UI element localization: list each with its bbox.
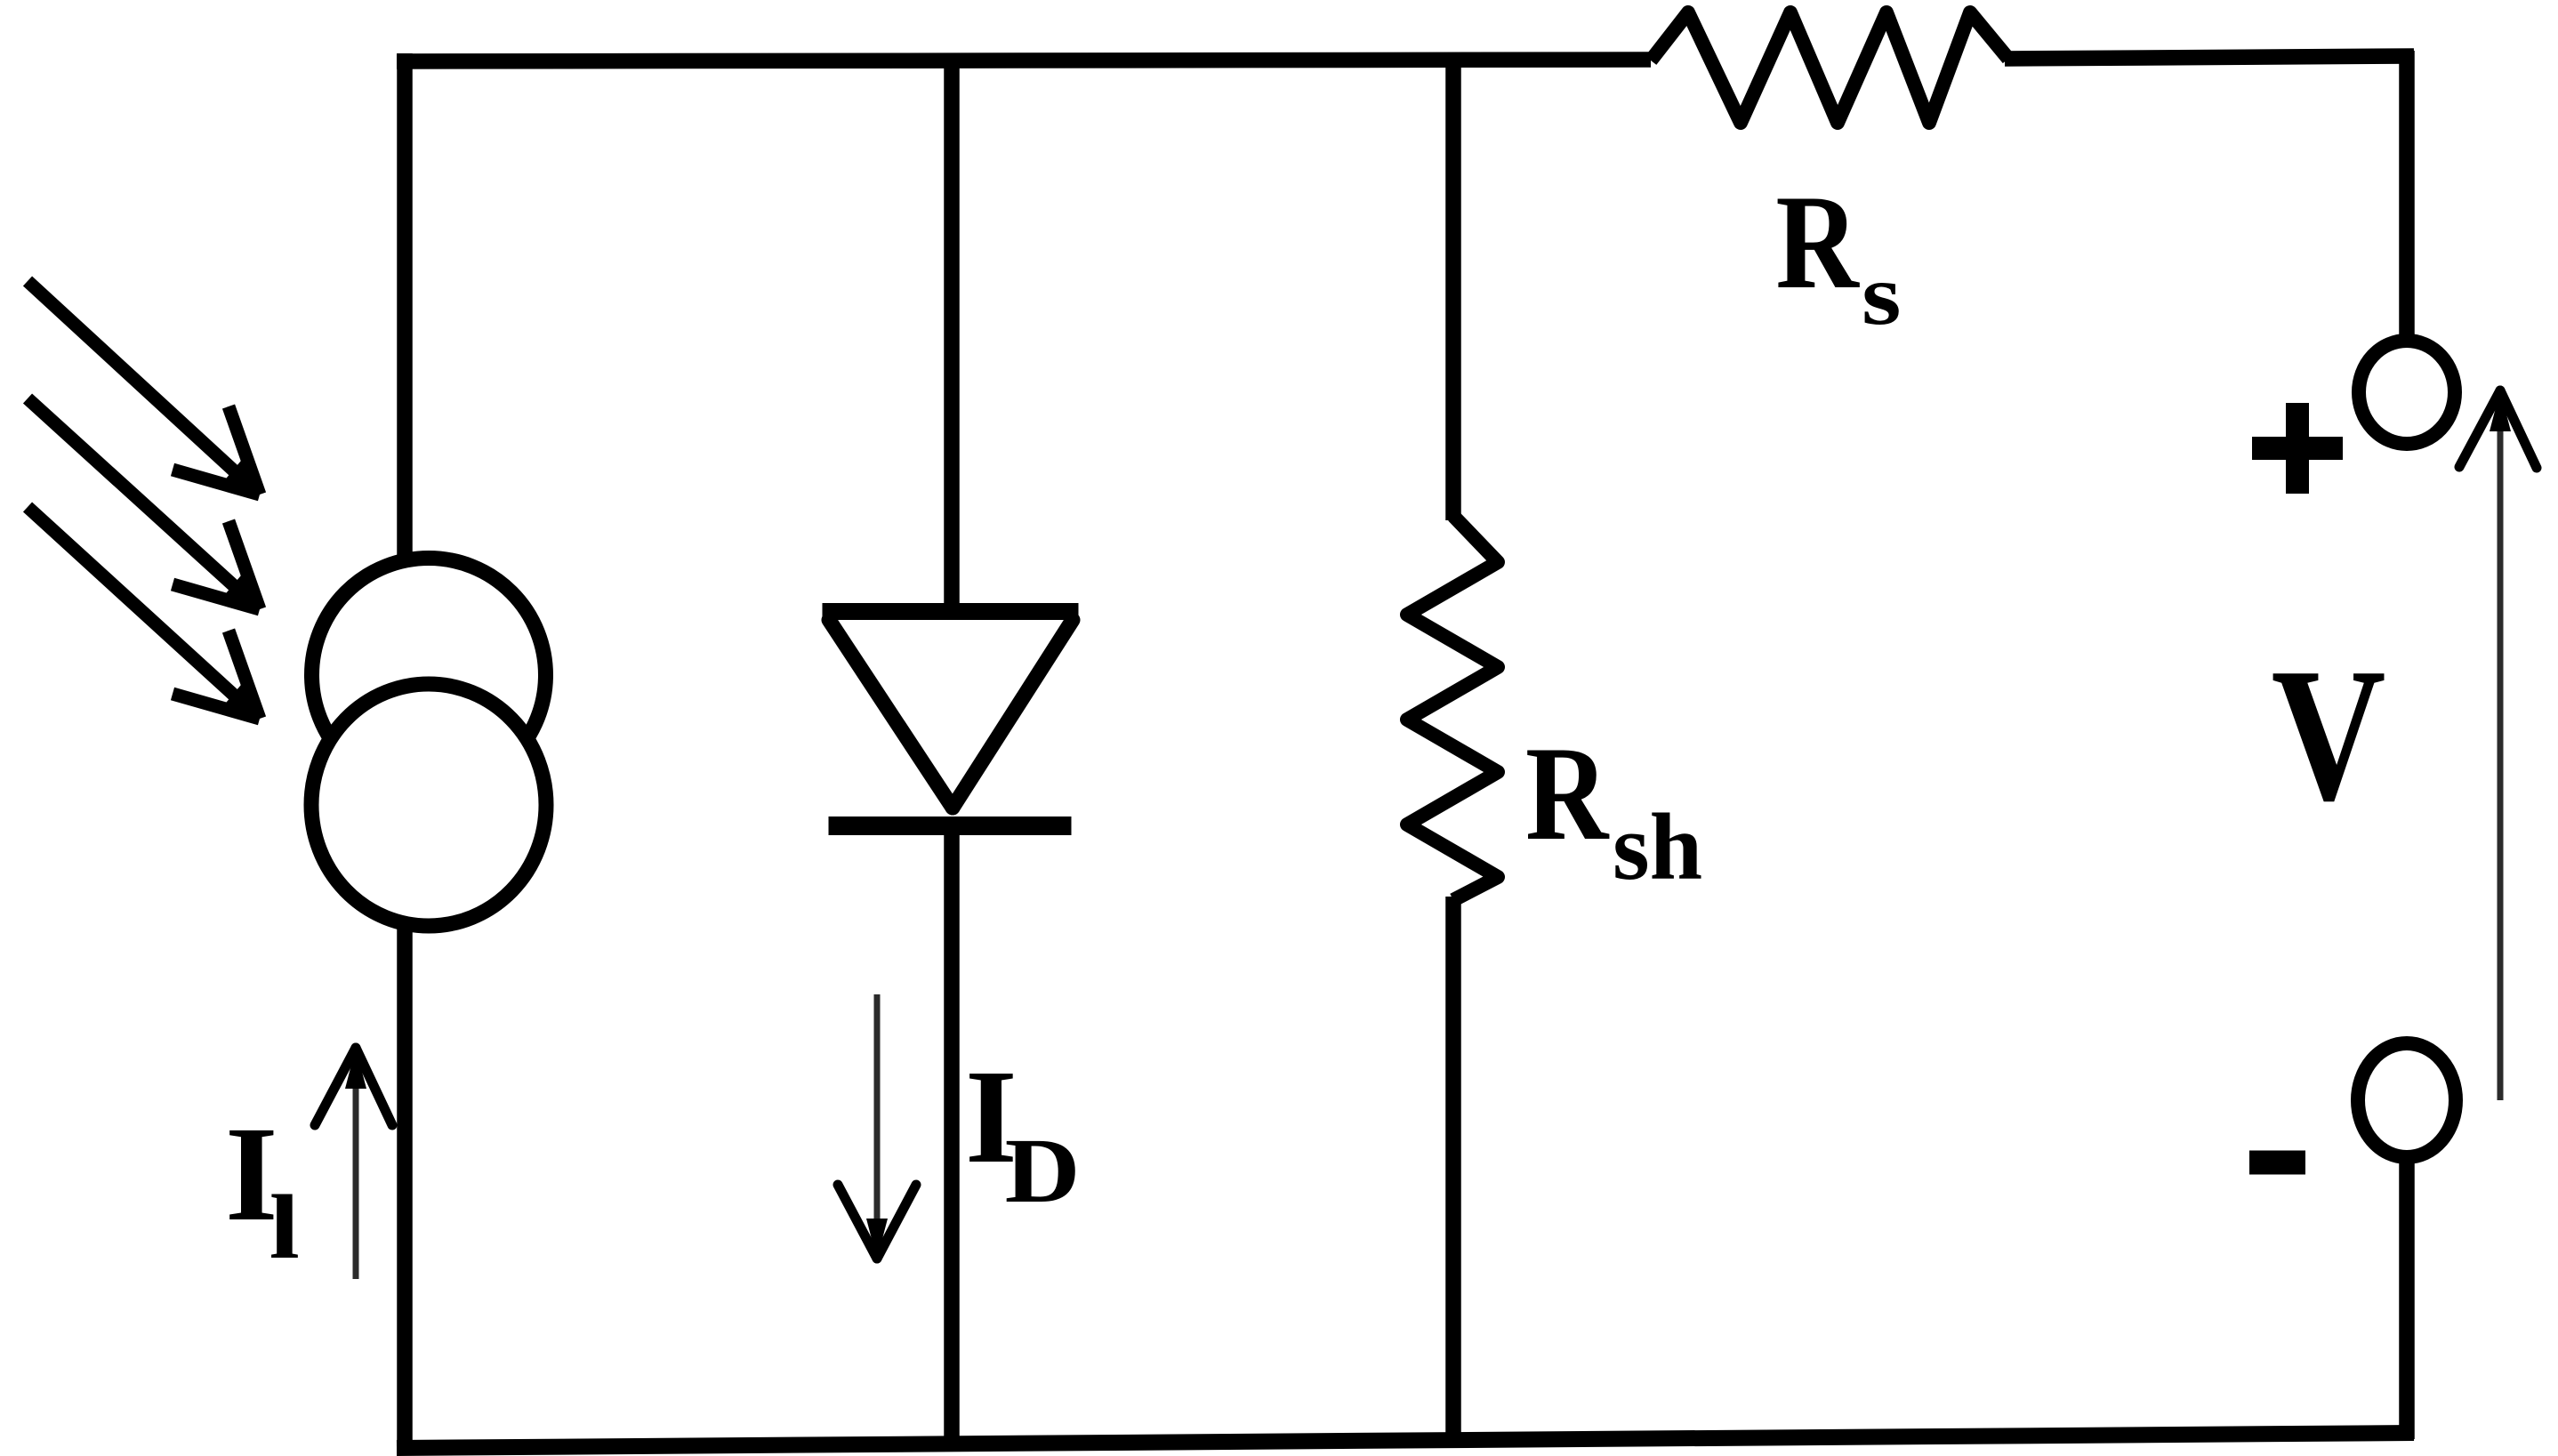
svg-text:s: s bbox=[1862, 246, 1902, 342]
wire top bus (node A: from top-left corner to resistor Rs) bbox=[397, 60, 1651, 61]
resistor Rs (zigzag) bbox=[1651, 12, 2008, 123]
light arrow 3 (photon arrow, bottom) bbox=[28, 507, 260, 719]
svg-text:D: D bbox=[1005, 1120, 1081, 1222]
wire left branch (current source down to bottom-left corner) bbox=[397, 921, 413, 1453]
wire diode branch (top bus down to diode anode) bbox=[944, 60, 960, 614]
wire Rsh branch (top bus down to resistor Rsh) bbox=[1445, 60, 1461, 520]
svg-text:R: R bbox=[1525, 718, 1610, 868]
label ID (diode current) bbox=[965, 1042, 1080, 1222]
terminal - (open circle) bbox=[2358, 1043, 2456, 1157]
terminal + (open circle) bbox=[2359, 341, 2455, 444]
wire right branch (- terminal down to bottom-right corner) bbox=[2399, 1154, 2415, 1439]
diode D (anode top bar of triangle) bbox=[823, 603, 1079, 620]
light arrow 2 (photon arrow, middle) bbox=[28, 398, 260, 609]
label - (minus sign) bbox=[2249, 1151, 2305, 1175]
current arrow ID (down arrow next to diode branch) bbox=[838, 994, 916, 1259]
current source Iph (lower circle, drawn on top with white fill) bbox=[311, 684, 546, 926]
svg-text:sh: sh bbox=[1613, 795, 1702, 900]
voltage arrow V (vertical arrow at right, pointing up) bbox=[2459, 390, 2537, 1100]
svg-text:l: l bbox=[269, 1177, 300, 1278]
wire top bus (from resistor Rs to top-right corner) bbox=[2005, 56, 2414, 59]
label Rsh (shunt resistance) bbox=[1525, 718, 1702, 900]
label + (plus sign) bbox=[2252, 403, 2343, 494]
wire left branch (top-left corner down to current source) bbox=[397, 53, 413, 556]
light arrow 1 (photon arrow, top) bbox=[28, 281, 260, 495]
label Il (photocurrent) bbox=[225, 1099, 300, 1278]
label Rs (series resistance) bbox=[1775, 166, 1901, 342]
wire right branch (top-right corner down to + terminal) bbox=[2399, 51, 2415, 338]
diode D (triangle right side) bbox=[953, 620, 1073, 808]
wire diode branch (diode cathode down to bottom bus) bbox=[944, 832, 960, 1446]
resistor Rsh (vertical zigzag) bbox=[1407, 516, 1498, 900]
wire Rsh branch (resistor Rsh down to bottom bus) bbox=[1445, 897, 1461, 1444]
current arrow Il (up arrow next to left branch) bbox=[315, 1048, 392, 1279]
current source Iph (upper circle) bbox=[312, 559, 546, 792]
svg-text:R: R bbox=[1775, 166, 1860, 317]
diode D (triangle left side) bbox=[829, 620, 953, 808]
svg-text:V: V bbox=[2272, 628, 2386, 840]
diode D (cathode bar) bbox=[829, 816, 1072, 835]
label V (terminal voltage) bbox=[2272, 628, 2386, 840]
wire bottom bus (bottom-right corner to bottom-left corner) bbox=[397, 1433, 2414, 1448]
